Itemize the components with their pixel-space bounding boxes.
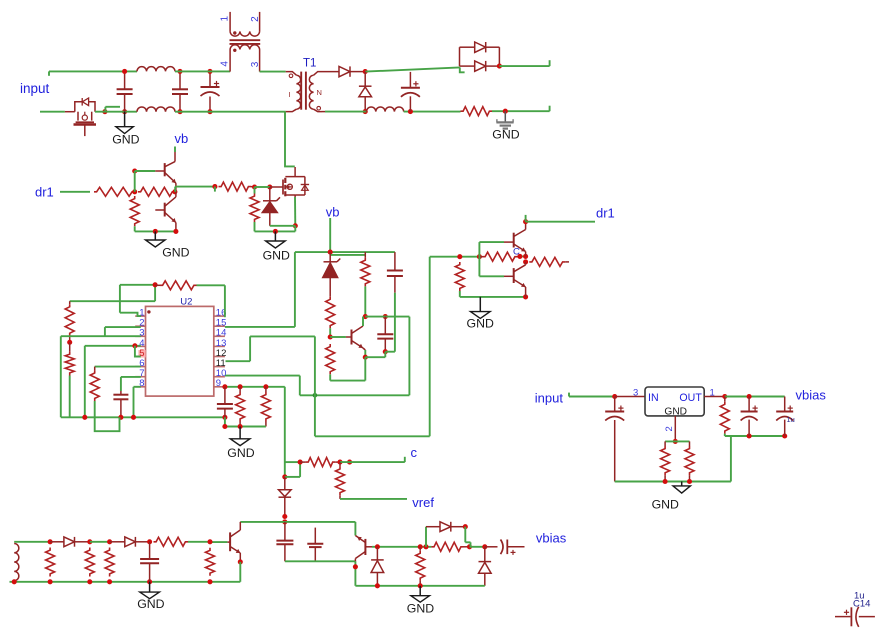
svg-text:vb: vb (326, 205, 340, 220)
svg-text:vref: vref (412, 495, 434, 510)
svg-text:1u: 1u (787, 415, 795, 424)
svg-text:OUT: OUT (679, 392, 702, 404)
svg-text:vbias: vbias (796, 387, 827, 402)
svg-text:GND: GND (162, 246, 189, 260)
svg-text:GND: GND (492, 128, 519, 142)
svg-text:dr1: dr1 (35, 185, 54, 200)
svg-text:I: I (289, 90, 291, 99)
svg-text:C: C (513, 247, 520, 258)
svg-text:2: 2 (250, 16, 261, 22)
svg-text:IN: IN (648, 392, 659, 404)
svg-text:vbias: vbias (536, 531, 567, 546)
svg-text:3: 3 (250, 61, 261, 67)
svg-text:GND: GND (137, 597, 164, 611)
svg-text:GND: GND (112, 132, 139, 146)
svg-text:4: 4 (219, 61, 230, 67)
svg-text:U2: U2 (180, 297, 192, 308)
svg-text:GND: GND (652, 498, 679, 512)
svg-text:T1: T1 (303, 58, 316, 70)
svg-text:input: input (535, 391, 564, 406)
svg-text:9: 9 (216, 378, 221, 389)
svg-text:c: c (411, 445, 418, 460)
svg-text:GND: GND (664, 406, 687, 417)
svg-text:1: 1 (220, 16, 231, 22)
svg-text:dr1: dr1 (596, 206, 615, 221)
svg-text:2: 2 (664, 426, 675, 431)
svg-text:GND: GND (263, 248, 290, 262)
svg-text:input: input (20, 81, 50, 96)
svg-text:GND: GND (227, 446, 254, 460)
svg-text:3: 3 (633, 387, 638, 398)
svg-text:GND: GND (407, 601, 434, 615)
svg-text:GND: GND (467, 317, 494, 331)
svg-text:N: N (317, 88, 322, 97)
svg-text:vb: vb (175, 131, 189, 146)
svg-text:C14: C14 (853, 599, 870, 610)
